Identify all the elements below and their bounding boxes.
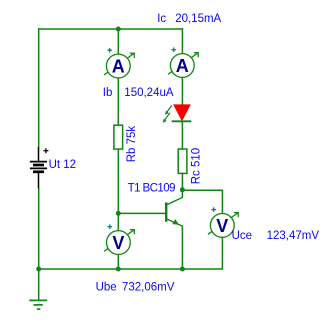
svg-text:123,47mV: 123,47mV (267, 230, 320, 242)
wire base node to transistor base (118, 212, 165, 214)
wire voltmeter Ube bottom (117, 254, 119, 269)
svg-text:A: A (112, 57, 125, 77)
svg-text:V: V (112, 233, 124, 253)
battery plus polarity mark (43, 148, 48, 153)
wire top rail left segment (39, 28, 119, 30)
ammeter A2 (Ic) (168, 52, 199, 77)
wire bottom rail (39, 268, 223, 270)
svg-text:Ib: Ib (103, 87, 113, 99)
wire ground stem (38, 269, 40, 300)
label Ib value 150,24uA (124, 87, 174, 99)
wire top rail right segment (118, 28, 183, 30)
voltmeter V1 (Ube) (104, 229, 135, 254)
svg-text:Ube: Ube (96, 281, 117, 293)
label Ib (103, 87, 113, 99)
wire voltmeter Uce drop (221, 190, 223, 215)
voltmeter V2 (Uce) (208, 212, 239, 237)
wire LED to resistor Rc (181, 121, 183, 149)
resistor Rc label 510 (190, 148, 202, 184)
svg-text:Rb 75k: Rb 75k (126, 126, 138, 163)
battery Ut (30, 147, 47, 188)
ammeter A1 plus mark (107, 48, 112, 53)
label Ube value 732,06mV (122, 281, 175, 293)
wire ammeter Ic to LED (181, 77, 183, 105)
svg-text:20,15mA: 20,15mA (175, 13, 221, 25)
LED light arrows (163, 105, 172, 122)
node base junction (116, 211, 121, 216)
wire resistor Rc to collector node (181, 173, 183, 197)
battery value label Ut 12 (49, 159, 77, 171)
node Ube junction (116, 267, 121, 272)
wire voltmeter Ube top (117, 213, 119, 231)
svg-text:T1 BC109: T1 BC109 (128, 183, 176, 195)
label Uce value 123,47mV (267, 230, 320, 242)
ground (29, 300, 47, 309)
svg-text:Ut 12: Ut 12 (49, 159, 77, 171)
node top rail junction (116, 27, 121, 32)
node ground junction (36, 267, 41, 272)
voltmeter V2 plus mark (211, 207, 216, 212)
svg-text:Uce: Uce (232, 230, 252, 242)
node emitter junction (180, 267, 185, 272)
wire left vertical lower (38, 188, 40, 269)
wire voltmeter Uce bottom (221, 237, 223, 270)
svg-text:Rc 510: Rc 510 (190, 148, 202, 184)
voltmeter V1 plus mark (108, 224, 113, 229)
label Uce (232, 230, 252, 242)
svg-text:Ic: Ic (157, 13, 166, 25)
resistor Rc (178, 149, 187, 173)
wire collector node to voltmeter Uce (182, 189, 222, 191)
resistor Rb (114, 125, 123, 149)
wire resistor Rb to base node (117, 149, 119, 214)
label Ic value 20,15mA (175, 13, 221, 25)
label Ube (96, 281, 117, 293)
resistor Rb label 75k (126, 126, 138, 163)
wire ammeter Ib top (117, 29, 119, 55)
label Ic (157, 13, 166, 25)
svg-text:732,06mV: 732,06mV (122, 281, 175, 293)
wire left vertical upper (38, 28, 40, 147)
wire ammeter Ic drop (181, 28, 183, 54)
wire emitter vertical (181, 226, 183, 269)
svg-text:V: V (216, 216, 228, 236)
LED D1 (172, 104, 192, 121)
svg-text:A: A (176, 56, 189, 76)
node collector junction (180, 187, 185, 192)
svg-text:150,24uA: 150,24uA (124, 87, 174, 99)
ammeter A1 (Ib) (104, 53, 135, 78)
transistor T1 (166, 197, 183, 226)
ammeter A2 plus mark (171, 47, 176, 52)
transistor label T1 BC109 (128, 183, 176, 195)
wire ammeter Ib to resistor Rb (117, 78, 119, 126)
